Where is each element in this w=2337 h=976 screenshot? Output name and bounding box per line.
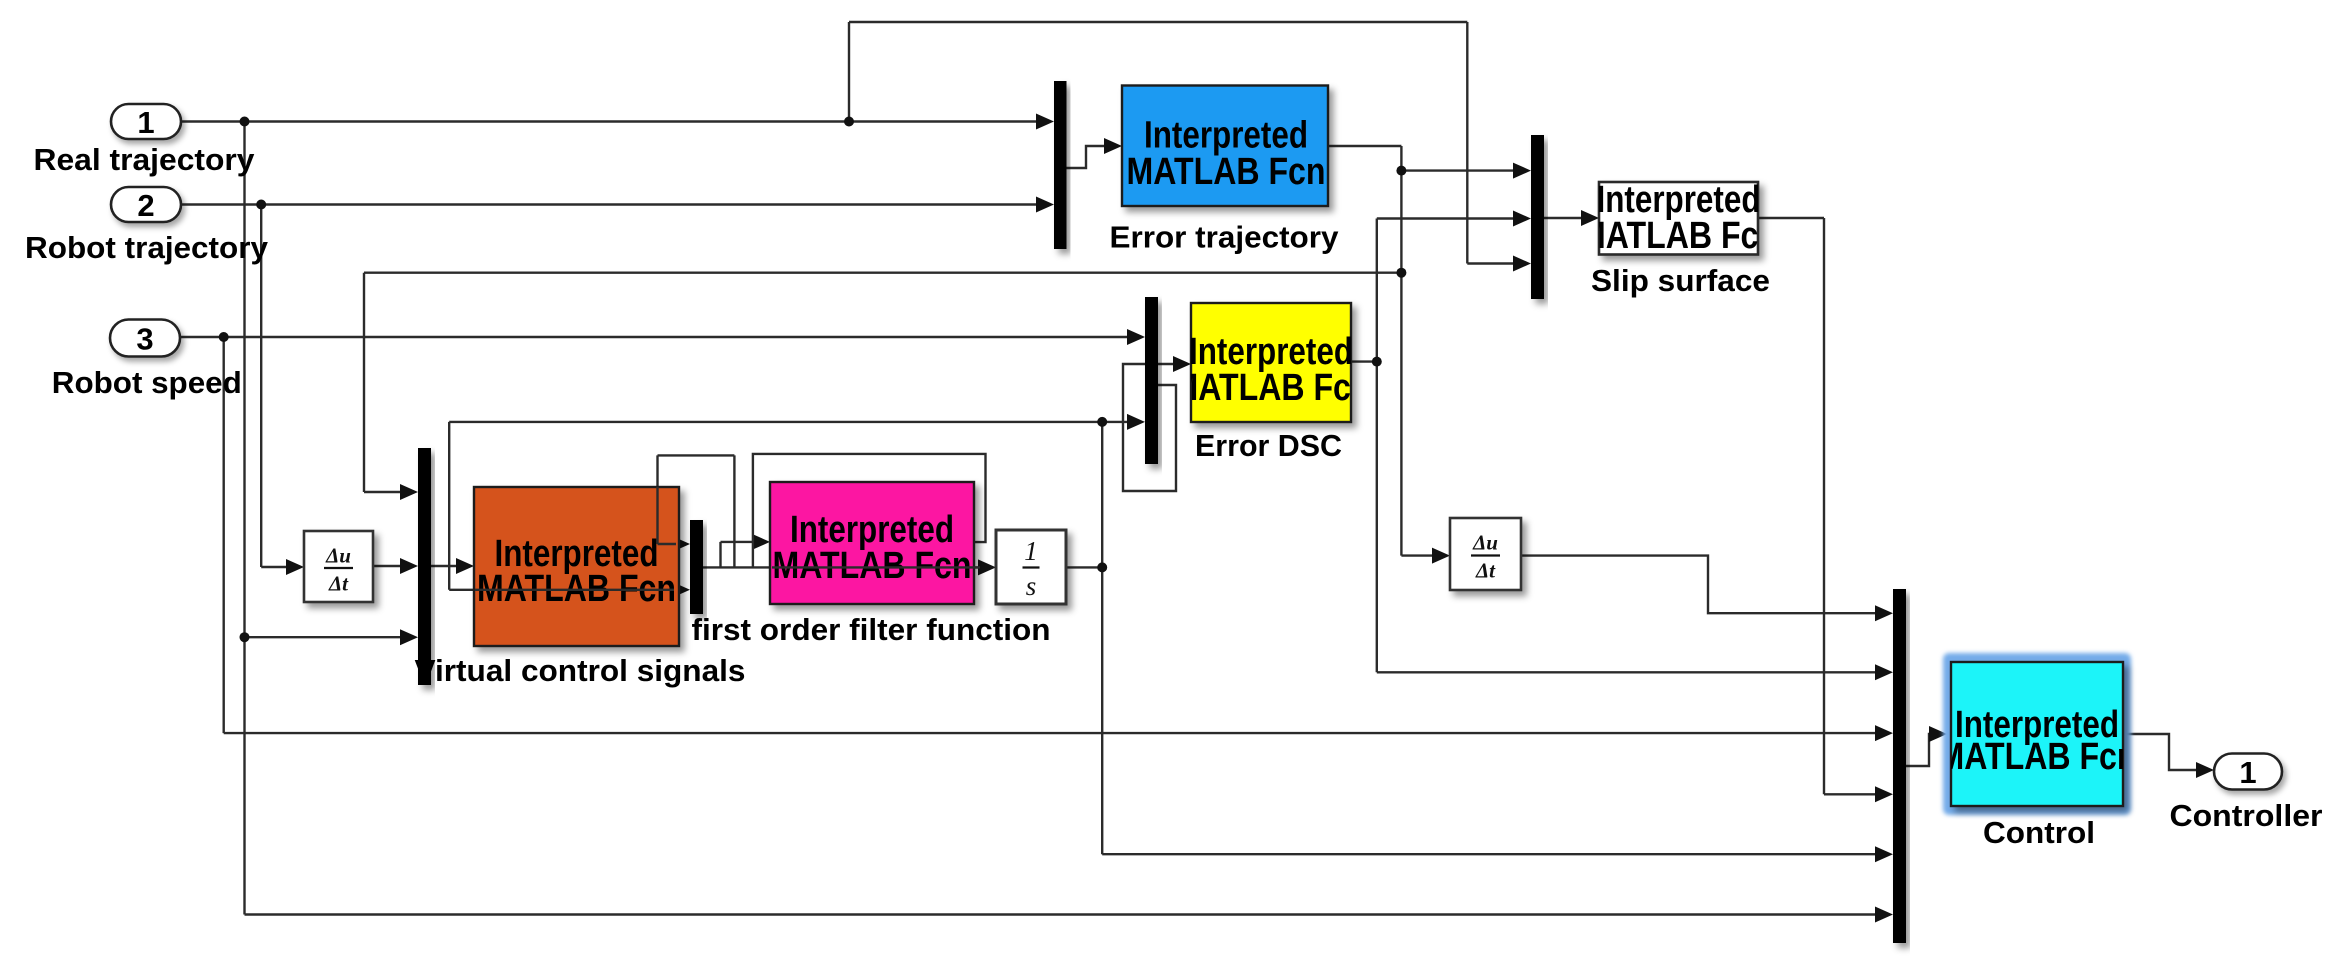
- svg-text:Δt: Δt: [1475, 559, 1496, 583]
- wire vertical x=1377: [1376, 219, 1378, 673]
- wire into Mux4 input1: [364, 491, 402, 493]
- wire error row y=272.7 leftward: [364, 272, 1401, 274]
- svg-text:Control: Control: [1983, 815, 2095, 850]
- node junction error row: [1396, 268, 1406, 278]
- wire port1 branch down to bottom row: [243, 637, 245, 914]
- wire du/dt 2 output: [1521, 556, 1877, 614]
- block U6 Control (cyan Interpreted MATLAB Fcn): [1951, 662, 2123, 806]
- wire Error trajectory output run right: [1328, 145, 1401, 147]
- wire port3 branch down (x=224): [222, 337, 224, 733]
- svg-text:Slip surface: Slip surface: [1591, 263, 1770, 298]
- svg-text:Controller: Controller: [2170, 798, 2323, 833]
- block I1 integrator 1/s: [996, 530, 1066, 604]
- wire into Mux3 input2: [1102, 421, 1129, 423]
- wire top drop at x=1467: [1466, 22, 1468, 264]
- wire into du/dt block 2: [1401, 554, 1434, 556]
- wire into Mux2 input3: [1467, 262, 1515, 264]
- wire into Mux2 input2: [1377, 217, 1515, 219]
- wire port2 horizontal to Mux1 input2: [181, 203, 1038, 205]
- wire Mux6 output step into Control block: [1906, 734, 1932, 766]
- svg-text:Error DSC: Error DSC: [1195, 428, 1342, 463]
- value 1/s: [1024, 536, 1038, 601]
- wire Slip surface output run right: [1758, 217, 1824, 219]
- input port 1: [111, 104, 181, 139]
- wire integrator output to junction: [1066, 566, 1102, 568]
- node junction feedback top: [1097, 417, 1107, 427]
- svg-text:Robot trajectory: Robot trajectory: [25, 230, 269, 265]
- wire port2 branch down (x=261): [260, 205, 262, 568]
- svg-text:MATLAB Fcn: MATLAB Fcn: [773, 545, 972, 587]
- block U1 Error trajectory (blue Interpreted MATLAB Fcn): [1122, 86, 1328, 207]
- wire step up into first order filter block input: [719, 542, 721, 568]
- svg-text:1: 1: [137, 105, 154, 140]
- node junction port1 branch: [240, 117, 250, 127]
- selection halo around Control block: [1943, 653, 2131, 815]
- wire port1 branch down (x=244.5): [243, 122, 245, 638]
- block U5 first order filter function (magenta Interpreted MATLAB Fcn): [770, 482, 974, 604]
- mux Mux3 (error DSC inputs): [1145, 297, 1158, 464]
- value du/dt: [1472, 531, 1498, 583]
- svg-text:first order filter function: first order filter function: [692, 612, 1051, 647]
- wire vertical x=1824 down: [1823, 218, 1825, 794]
- wire Error DSC output to junction: [1351, 360, 1377, 362]
- svg-text:Virtual control signals: Virtual control signals: [415, 653, 746, 688]
- arrowhead Mux5 input1: [672, 536, 690, 552]
- wire port3 row to Mux6 input3: [224, 732, 1877, 734]
- wire overlay: loop crossing orange: [656, 487, 658, 544]
- output port 1 Controller: [2214, 754, 2282, 790]
- wire into Mux2 input1: [1401, 169, 1515, 171]
- wire into du/dt block 1: [261, 566, 290, 568]
- node junction integrator out: [1097, 562, 1107, 572]
- mux Mux6 (control inputs): [1893, 589, 1906, 943]
- block U2 Slip surface (white Interpreted MATLAB Fcn): [1599, 182, 1758, 255]
- svg-text:Interpreted: Interpreted: [1144, 114, 1308, 156]
- wire drop x=449: [448, 422, 450, 590]
- node junction port3 branch: [219, 332, 229, 342]
- svg-text:Δt: Δt: [328, 572, 349, 596]
- wire port3 horizontal to Mux3 input1: [181, 336, 1129, 338]
- wire vertical x=1401 down: [1400, 146, 1402, 556]
- wire Mux4 output into Virtual control signals block: [431, 565, 458, 567]
- svg-text:3: 3: [136, 322, 153, 357]
- wire Mux5 output run to integrator (crosses magenta block): [703, 566, 980, 568]
- wire feedback into Mux5 input2 (crosses orange block): [449, 589, 674, 591]
- wire du/dt 1 output into Mux4 input2: [373, 565, 402, 567]
- svg-text:Error trajectory: Error trajectory: [1110, 220, 1340, 255]
- block U3 Error DSC (yellow Interpreted MATLAB Fcn): [1191, 303, 1351, 422]
- wire into Mux6 input4: [1824, 793, 1877, 795]
- wire Mux1 output step into Error trajectory block: [1066, 146, 1106, 168]
- svg-text:1: 1: [1024, 536, 1038, 566]
- arrowhead Mux5 input2: [672, 582, 690, 598]
- mux Mux2 (slip surface inputs): [1531, 135, 1544, 299]
- svg-text:Robot speed: Robot speed: [52, 365, 242, 400]
- value du/dt: [325, 544, 351, 596]
- wire Control output to Controller port: [2123, 734, 2198, 770]
- svg-text:MATLAB Fcn: MATLAB Fcn: [1938, 736, 2137, 778]
- input port 2: [111, 187, 181, 222]
- wire filter output loop around magenta block: [753, 454, 986, 568]
- node junction port2 branch: [256, 200, 266, 210]
- mux Mux5 (filter inputs): [690, 520, 703, 614]
- wire loop from Mux5 output region over orange into Mux5 input1: [733, 455, 735, 567]
- wire Mux2 output into Slip surface block: [1544, 217, 1583, 219]
- node junction error-traj out / mux2 in1: [1396, 166, 1406, 176]
- svg-text:2: 2: [137, 188, 154, 223]
- wire Mux3 output loop around to Error DSC block input: [1123, 364, 1176, 491]
- node junction port1/top-riser: [844, 117, 854, 127]
- node junction port1 lower branch: [240, 632, 250, 642]
- svg-text:MATLAB Fcn: MATLAB Fcn: [1579, 215, 1778, 257]
- wire top feed riser at x=849: [848, 22, 850, 122]
- svg-text:1: 1: [2239, 755, 2256, 790]
- node junction errorDSC out: [1372, 357, 1382, 367]
- block D2 derivative du/dt (right): [1450, 518, 1521, 590]
- wire port1 branch to Mux4 input3: [245, 636, 403, 638]
- wire port1 horizontal to Mux1 input1: [181, 120, 1038, 122]
- wire top horizontal run: [849, 21, 1467, 23]
- wire overlay: feedback crossing orange: [475, 589, 674, 591]
- svg-text:Δu: Δu: [325, 544, 351, 568]
- input port 3: [110, 320, 180, 357]
- wire overlay: Mux5 output crossing magenta: [772, 566, 980, 568]
- svg-text:MATLAB Fcn: MATLAB Fcn: [1127, 151, 1326, 193]
- wire drop x=364 to Mux4 input1: [363, 273, 365, 492]
- block U4 Virtual control signals (orange Interpreted MATLAB Fcn): [474, 487, 679, 646]
- wire vertical x=1102: [1101, 422, 1103, 854]
- mux Mux1 (error trajectory inputs): [1054, 81, 1067, 249]
- mux Mux4 (virtual control inputs): [418, 448, 431, 685]
- wire row to Mux6 input2: [1377, 671, 1877, 673]
- svg-text:s: s: [1026, 571, 1037, 601]
- svg-text:Real trajectory: Real trajectory: [34, 142, 256, 177]
- svg-text:Δu: Δu: [1472, 531, 1498, 555]
- svg-text:MATLAB Fcn: MATLAB Fcn: [1172, 367, 1371, 409]
- wire feedback row y=422: [449, 421, 1102, 423]
- wire bottom row to Mux6 input5: [1102, 853, 1877, 855]
- wire bottom row to Mux6 input6: [245, 913, 1878, 915]
- block D1 derivative du/dt (left): [304, 531, 373, 602]
